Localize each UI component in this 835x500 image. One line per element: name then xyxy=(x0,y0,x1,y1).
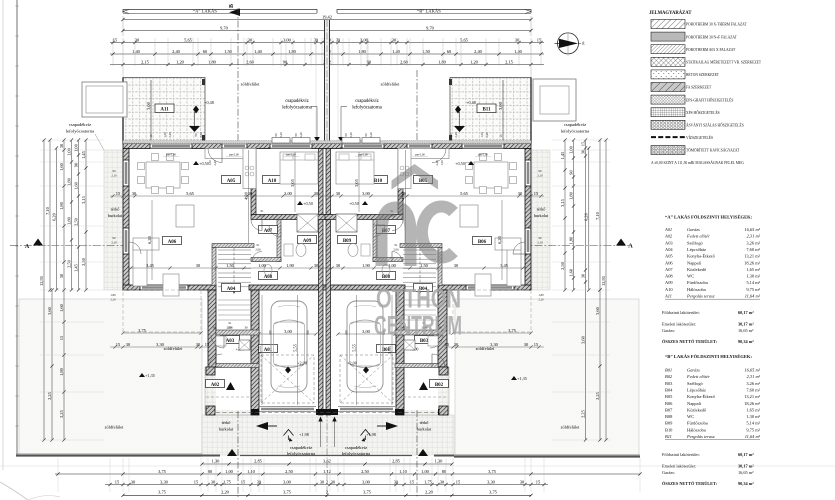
svg-text:térkő: térkő xyxy=(222,420,231,425)
room label A09 xyxy=(298,236,317,244)
right porch paving B02 xyxy=(403,367,449,415)
window A05 top xyxy=(222,144,247,149)
dim row 4 top xyxy=(110,53,544,55)
svg-text:Földszinti lakóterület:: Földszinti lakóterület: xyxy=(662,310,700,315)
svg-text:BETON SZERKEZET: BETON SZERKEZET xyxy=(686,73,720,77)
svg-text:91: 91 xyxy=(395,243,399,247)
svg-text:B08: B08 xyxy=(665,414,673,419)
stair lower flight B04 hall xyxy=(404,299,436,301)
svg-text:B09: B09 xyxy=(665,421,673,426)
interior dim vertical 3,05 A xyxy=(294,152,296,212)
left dim column group xyxy=(43,140,45,440)
room label A07 xyxy=(259,226,278,234)
svg-text:30: 30 xyxy=(244,326,248,330)
window A06 left xyxy=(123,160,129,186)
legend row 3: POROTHERM A03 X FALA xyxy=(651,45,685,54)
svg-text:90: 90 xyxy=(113,169,117,173)
garden area left (zoldfelulet) xyxy=(19,299,202,455)
interior wall stair top xyxy=(212,244,254,248)
svg-text:Földszinti lakóterület:: Földszinti lakóterület: xyxy=(662,452,700,457)
svg-text:A08: A08 xyxy=(665,274,673,279)
legend row 1: POROTHERM 30 X-THERM xyxy=(651,20,685,29)
svg-text:Garázs: Garázs xyxy=(687,368,700,373)
window A06 bottom xyxy=(140,285,188,290)
wall exterior bottom left part xyxy=(123,285,216,290)
svg-text:Konyha-Étkező: Konyha-Étkező xyxy=(687,394,716,399)
furniture armchair + tv B06 xyxy=(460,205,478,227)
interior dim vertical 6,20 B xyxy=(501,200,503,280)
interior wall stair left B mirror xyxy=(438,248,442,286)
window B06 bottom xyxy=(466,285,514,290)
svg-text:15: 15 xyxy=(536,479,541,484)
svg-text:15: 15 xyxy=(241,479,246,484)
svg-text:90: 90 xyxy=(539,169,543,173)
dim row 3 top xyxy=(110,42,544,44)
svg-text:“B” LAKÁS: “B” LAKÁS xyxy=(417,9,441,14)
svg-text:CENTRUM: CENTRUM xyxy=(374,311,462,341)
door arc A07 xyxy=(269,225,281,237)
svg-text:30: 30 xyxy=(392,37,397,42)
wall party wall left leaf xyxy=(319,149,324,416)
gate marker B xyxy=(418,449,428,456)
svg-text:Nappali: Nappali xyxy=(687,260,702,265)
svg-text:A07: A07 xyxy=(264,229,273,234)
faint full width ground line xyxy=(0,465,835,467)
window A06 top xyxy=(150,144,192,149)
svg-text:A04: A04 xyxy=(665,247,673,252)
svg-text:B11: B11 xyxy=(665,434,672,439)
svg-text:30: 30 xyxy=(336,37,341,42)
dim 3,75 below A06 xyxy=(123,332,201,334)
svg-text:B04: B04 xyxy=(665,387,673,392)
svg-text:30,17 m²: 30,17 m² xyxy=(738,322,754,327)
svg-text:90: 90 xyxy=(449,133,453,137)
window A10 top xyxy=(270,144,312,149)
party wall top extension lines xyxy=(324,20,326,143)
door arc A08 xyxy=(252,252,262,262)
party wall axis line xyxy=(326,20,328,497)
roofline dashed above doors xyxy=(216,412,438,414)
svg-text:ÖSSZES NETTÓ TERÜLET:: ÖSSZES NETTÓ TERÜLET: xyxy=(662,481,718,486)
interior wall A05|A10 xyxy=(251,149,256,215)
interior wall stair top B mirror xyxy=(400,244,442,248)
svg-text:Garázs:: Garázs: xyxy=(662,470,675,475)
legend row 4: STATIKAILAG M&#201;R xyxy=(651,57,685,66)
svg-text:30: 30 xyxy=(524,342,529,347)
left extension lines xyxy=(40,139,104,141)
stair lower flight A04 hall xyxy=(218,299,250,301)
pergola terrace A11 hatch xyxy=(123,78,205,144)
party wall top fill xyxy=(325,20,329,143)
svg-text:burkolat: burkolat xyxy=(417,427,432,432)
gate marker A xyxy=(227,449,237,456)
svg-text:A09: A09 xyxy=(303,239,312,244)
garage dim vertical 5,55 A xyxy=(261,295,263,405)
A11 room label xyxy=(155,104,174,113)
room label A02 xyxy=(206,380,225,388)
svg-text:zöldfelület: zöldfelület xyxy=(164,346,184,351)
svg-text:zöldfelület: zöldfelület xyxy=(105,425,125,430)
door arc B03 xyxy=(430,335,443,348)
section line A-A horizontal xyxy=(10,245,632,247)
svg-text:30: 30 xyxy=(515,37,520,42)
room label A03 xyxy=(221,336,240,344)
svg-text:“A” LAKÁS: “A” LAKÁS xyxy=(193,9,217,14)
window B06 right xyxy=(525,160,531,186)
svg-text:A05: A05 xyxy=(227,179,236,184)
room label A10 xyxy=(263,176,282,184)
front paving (terko burkolat) xyxy=(202,415,454,455)
svg-text:15: 15 xyxy=(59,335,64,340)
left terrace strip paving xyxy=(104,150,123,290)
svg-text:Konyha-Étkező: Konyha-Étkező xyxy=(687,254,716,259)
svg-text:Nappali: Nappali xyxy=(687,401,702,406)
roof overhang dashes left xyxy=(123,290,201,332)
window sill boxes above top wall xyxy=(272,138,290,144)
svg-text:csapadékvíz: csapadékvíz xyxy=(355,99,378,104)
porch dashed line A02 xyxy=(206,396,251,398)
svg-text:90,34 m²: 90,34 m² xyxy=(738,481,754,486)
svg-text:91: 91 xyxy=(257,243,261,247)
shower A09 (crossed box) xyxy=(297,214,318,232)
washer B03 xyxy=(428,336,438,346)
door arc B08 xyxy=(392,252,402,262)
svg-text:15: 15 xyxy=(580,141,585,146)
svg-text:30: 30 xyxy=(135,37,140,42)
legend row 6: FA SZERKEZET xyxy=(651,83,685,92)
garage door B01 xyxy=(338,406,395,408)
dim 9,70 B xyxy=(123,30,531,32)
room label B10 xyxy=(369,176,388,184)
svg-text:30: 30 xyxy=(196,263,201,268)
svg-text:30: 30 xyxy=(126,342,131,347)
pergola corner posts xyxy=(202,79,205,85)
B11 room label xyxy=(477,104,496,113)
svg-text:zöldfelület: zöldfelület xyxy=(241,82,261,87)
svg-text:A11: A11 xyxy=(664,294,672,299)
svg-text:A06: A06 xyxy=(168,240,177,245)
entry arrow B02 xyxy=(386,422,398,430)
window B05 top xyxy=(407,144,432,149)
room label B03 xyxy=(415,336,434,344)
svg-text:Fedett előtér: Fedett előtér xyxy=(686,374,710,379)
title bracket A lakas xyxy=(123,10,317,14)
door arc B02 entry xyxy=(432,354,445,367)
svg-text:15: 15 xyxy=(456,479,461,484)
site boundary left outer xyxy=(2,0,4,470)
svg-text:30: 30 xyxy=(518,191,523,196)
interior wall B05|B10 mirror xyxy=(398,149,403,215)
svg-text:Szélfogó: Szélfogó xyxy=(687,240,704,245)
pergola dim 3,00 vertical B xyxy=(502,80,504,141)
wall garage inner right xyxy=(396,290,404,415)
svg-text:30: 30 xyxy=(336,191,341,196)
svg-text:90,34 m²: 90,34 m² xyxy=(738,339,754,344)
section line B-B vertical left xyxy=(237,8,239,497)
svg-text:JELMAGYARÁZAT: JELMAGYARÁZAT xyxy=(649,10,692,16)
door arc A02 entry xyxy=(209,354,222,367)
svg-text:30: 30 xyxy=(580,273,585,278)
gutter leader lines with up arrows xyxy=(320,420,322,447)
room label B04 xyxy=(414,284,433,292)
svg-text:“A” LAKÁS FÖLDSZINTI HELYISÉGE: “A” LAKÁS FÖLDSZINTI HELYISÉGEK: xyxy=(665,215,753,220)
elevation diamond + down arrow pergola A xyxy=(193,106,199,114)
legend row 10: V&#205;ZSZIGETEL&#20 xyxy=(651,136,685,138)
svg-text:15: 15 xyxy=(113,37,118,42)
svg-text:A07: A07 xyxy=(665,267,673,272)
wall exterior bottom middle part xyxy=(249,285,405,290)
wall garage ext left upper xyxy=(208,290,216,367)
svg-text:B06: B06 xyxy=(478,240,487,245)
svg-text:Garázs:: Garázs: xyxy=(662,328,675,333)
bath fixtures B09 xyxy=(348,244,358,257)
porch pillar B02 xyxy=(439,367,448,375)
svg-text:B01: B01 xyxy=(665,368,672,373)
wall garage ext right upper xyxy=(438,290,447,367)
room label A04 xyxy=(222,284,241,292)
svg-text:lefolyócsatorna: lefolyócsatorna xyxy=(287,451,315,456)
room label A05 xyxy=(222,176,241,184)
wall exterior bottom right part xyxy=(438,285,531,290)
svg-text:30,17 m²: 30,17 m² xyxy=(738,464,754,469)
svg-text:B03: B03 xyxy=(665,381,673,386)
svg-text:lefolyócsatorna: lefolyócsatorna xyxy=(352,106,382,111)
planter square top-right xyxy=(533,79,576,121)
svg-text:STATIKAILAG MÉRETEZETT VB. SZE: STATIKAILAG MÉRETEZETT VB. SZERKEZET xyxy=(686,60,762,65)
svg-text:Garázs: Garázs xyxy=(687,227,700,232)
svg-text:90: 90 xyxy=(283,59,288,64)
garage dim 3,00 B xyxy=(338,333,395,335)
svg-text:ÖSSZES NETTÓ TERÜLET:: ÖSSZES NETTÓ TERÜLET: xyxy=(662,339,718,344)
interior wall corridor|bath xyxy=(277,220,281,262)
svg-text:WC: WC xyxy=(687,414,694,419)
pergola terrace B11 hatch xyxy=(450,78,531,144)
svg-text:15: 15 xyxy=(537,37,542,42)
svg-text:lefolyócsatorna: lefolyócsatorna xyxy=(561,129,589,134)
svg-text:90: 90 xyxy=(344,133,348,137)
svg-text:B: B xyxy=(229,4,235,8)
svg-text:30: 30 xyxy=(331,479,336,484)
svg-text:30: 30 xyxy=(314,191,319,196)
svg-text:TÖMÖRÍTETT KAVICSÁGYAZAT: TÖMÖRÍTETT KAVICSÁGYAZAT xyxy=(686,148,740,153)
svg-text:90: 90 xyxy=(539,236,543,240)
right terrace strip paving xyxy=(531,150,550,290)
right extension lines xyxy=(552,139,610,141)
interior dim row y=267 xyxy=(129,267,525,269)
interior wall A03 bottom xyxy=(216,364,259,368)
kitchen counter B05 xyxy=(398,149,449,159)
svg-text:30: 30 xyxy=(132,191,137,196)
svg-text:30: 30 xyxy=(131,479,136,484)
svg-text:A04: A04 xyxy=(227,287,236,292)
svg-text:A03: A03 xyxy=(665,240,673,245)
section line B-B vertical right xyxy=(416,70,418,497)
svg-text:15: 15 xyxy=(499,134,503,138)
svg-text:B02: B02 xyxy=(435,383,444,388)
furniture armchair + tv A06 xyxy=(176,205,194,227)
insulation band above top wall xyxy=(123,141,531,144)
bed B10 xyxy=(336,152,374,184)
bath fixtures A09 xyxy=(296,244,306,257)
svg-text:Közlekedő: Közlekedő xyxy=(687,267,707,272)
legend row 2: POROTHERM 30 N+F FAL xyxy=(651,32,685,41)
entry arrow A02 xyxy=(256,422,268,430)
shaft X box B03 xyxy=(404,340,415,350)
shaft X box A03 xyxy=(239,340,250,350)
B02 entry up arrow xyxy=(419,382,428,390)
svg-text:90: 90 xyxy=(73,162,78,167)
svg-text:POROTHERM 30 X-THERM FALAZAT: POROTHERM 30 X-THERM FALAZAT xyxy=(686,23,747,27)
svg-text:“B” LAKÁS FÖLDSZINTI HELYISÉGE: “B” LAKÁS FÖLDSZINTI HELYISÉGEK: xyxy=(665,354,752,359)
bottom dim row 3 xyxy=(105,484,548,486)
interior wall A10 bottom xyxy=(251,215,329,220)
main block floor background xyxy=(129,148,525,285)
svg-text:térkő: térkő xyxy=(111,207,120,212)
svg-text:A: A xyxy=(628,243,633,250)
svg-text:Közlekedő: Közlekedő xyxy=(687,407,707,412)
wall garage inner left xyxy=(251,290,259,415)
pergola dim 3,00 vertical A xyxy=(150,80,152,141)
svg-text:30: 30 xyxy=(212,326,216,330)
svg-text:ÁSVÁNYI SZÁLAS HŐSZIGETELÉS: ÁSVÁNYI SZÁLAS HŐSZIGETELÉS xyxy=(686,123,744,128)
window A06 left door xyxy=(123,228,129,254)
svg-text:B06: B06 xyxy=(665,401,673,406)
svg-text:B07: B07 xyxy=(665,407,673,412)
right dim column group xyxy=(605,140,607,440)
svg-text:30: 30 xyxy=(454,342,459,347)
svg-text:csapadékvíz: csapadékvíz xyxy=(69,122,91,127)
svg-text:30: 30 xyxy=(314,263,319,268)
furniture dining table A06 xyxy=(146,162,180,188)
svg-text:Szélfogó: Szélfogó xyxy=(687,381,704,386)
wc A08 xyxy=(264,265,272,276)
bottom dim row 1 xyxy=(202,463,452,465)
svg-text:A01: A01 xyxy=(664,227,672,232)
svg-text:30: 30 xyxy=(454,263,459,268)
svg-text:30: 30 xyxy=(59,143,64,148)
svg-text:30: 30 xyxy=(580,149,585,154)
window B10 top xyxy=(342,144,384,149)
svg-text:térkő: térkő xyxy=(420,420,429,425)
svg-text:15: 15 xyxy=(205,342,210,347)
svg-text:90: 90 xyxy=(294,133,298,137)
interior dim vertical 4,30 A xyxy=(248,150,250,243)
garage door A01 xyxy=(259,406,316,408)
svg-text:30: 30 xyxy=(336,263,341,268)
svg-text:15: 15 xyxy=(445,342,450,347)
svg-text:30: 30 xyxy=(320,479,325,484)
legend row 7: EPS-GRAFIT H&#336;SZ xyxy=(651,95,685,104)
svg-text:91: 91 xyxy=(229,321,233,325)
door arc A05 entry xyxy=(208,149,222,163)
svg-text:csapadékvíz: csapadékvíz xyxy=(285,99,308,104)
door arc A03 xyxy=(211,335,224,348)
site boundary bottom dark line left xyxy=(16,454,202,456)
svg-text:lefolyócsatorna: lefolyócsatorna xyxy=(66,129,94,134)
legend row 9: &#193;SV&#193;NYI SZ xyxy=(651,120,685,129)
window B06 top xyxy=(462,144,504,149)
svg-text:Hálószoba: Hálószoba xyxy=(687,427,706,432)
furniture sofa A06 xyxy=(133,246,147,286)
wall exterior left xyxy=(123,149,129,291)
svg-text:VÍZSZIGETELÉS: VÍZSZIGETELÉS xyxy=(686,135,713,140)
svg-text:B11: B11 xyxy=(482,108,491,113)
svg-text:90: 90 xyxy=(364,133,368,137)
door arc B06 terrace xyxy=(513,242,525,254)
room label A08 xyxy=(259,272,278,280)
svg-text:30: 30 xyxy=(440,479,445,484)
garage dim 3,00 A xyxy=(259,333,316,335)
svg-text:Pergolás terasz: Pergolás terasz xyxy=(686,434,715,439)
interior wall corridor|bath B mirror xyxy=(373,220,377,262)
svg-text:15: 15 xyxy=(194,479,199,484)
svg-text:15: 15 xyxy=(534,342,539,347)
svg-text:B09: B09 xyxy=(343,239,352,244)
room label B08 xyxy=(377,272,396,280)
title bracket B lakas xyxy=(337,10,531,14)
dim row 5 top xyxy=(110,64,544,66)
garage bottom wall + door posts xyxy=(251,409,259,415)
svg-text:B02: B02 xyxy=(665,374,673,379)
svg-text:Fürdőszoba: Fürdőszoba xyxy=(687,280,708,285)
svg-text:Emeleti lakóterület:: Emeleti lakóterület: xyxy=(662,322,696,327)
svg-text:2: 2 xyxy=(326,479,328,484)
room label A06 xyxy=(163,237,182,245)
car B01 xyxy=(347,301,383,392)
svg-text:60,17 m²: 60,17 m² xyxy=(738,310,754,315)
driveway dashed cross A01 xyxy=(261,355,314,403)
svg-text:B05: B05 xyxy=(665,394,673,399)
A02 entry up arrow xyxy=(226,382,235,390)
svg-text:OTTHON: OTTHON xyxy=(376,284,461,314)
svg-text:Fürdőszoba: Fürdőszoba xyxy=(687,421,708,426)
stairs A04 treads xyxy=(218,249,251,251)
garage dim vertical 5,55 B xyxy=(356,295,358,405)
bottom dim row 2 xyxy=(55,473,640,475)
site boundary bottom dark line right xyxy=(454,455,640,457)
svg-text:80: 80 xyxy=(442,469,447,474)
garden area right (zoldfelulet) xyxy=(455,299,639,455)
room label B02 xyxy=(430,380,449,388)
svg-text:térkő: térkő xyxy=(537,207,546,212)
driveway dashed cross B01 xyxy=(340,355,393,403)
svg-text:80: 80 xyxy=(208,469,213,474)
legend row 8: XPS H&#336;SZIGETEL& xyxy=(651,108,685,117)
bottom extension lines xyxy=(57,458,59,492)
svg-text:30: 30 xyxy=(257,479,262,484)
interior wall bath bottom xyxy=(251,258,281,262)
svg-text:15: 15 xyxy=(115,479,120,484)
svg-text:A02: A02 xyxy=(664,234,673,239)
svg-text:15: 15 xyxy=(410,479,415,484)
interior wall stair left xyxy=(212,248,216,286)
svg-text:60: 60 xyxy=(447,49,452,54)
svg-text:A11: A11 xyxy=(160,108,169,113)
svg-text:WC: WC xyxy=(687,274,694,279)
elevation diamond + down arrow pergola B xyxy=(455,106,461,114)
svg-text:15: 15 xyxy=(534,191,539,196)
svg-text:A09: A09 xyxy=(665,280,673,285)
porch pillar A02 xyxy=(206,367,215,375)
svg-text:EPS-GRAFIT HŐSZIGETELÉS: EPS-GRAFIT HŐSZIGETELÉS xyxy=(686,97,733,102)
svg-text:POROTHERM A03 X FALAZAT: POROTHERM A03 X FALAZAT xyxy=(686,48,736,52)
svg-text:A05: A05 xyxy=(665,254,673,259)
north arrow compass xyxy=(558,33,579,54)
svg-text:burkolat: burkolat xyxy=(108,213,123,218)
svg-text:90: 90 xyxy=(113,236,117,240)
svg-text:POROTHERM 30 N+F FALAZAT: POROTHERM 30 N+F FALAZAT xyxy=(686,35,738,39)
door arc B09 xyxy=(392,220,403,231)
